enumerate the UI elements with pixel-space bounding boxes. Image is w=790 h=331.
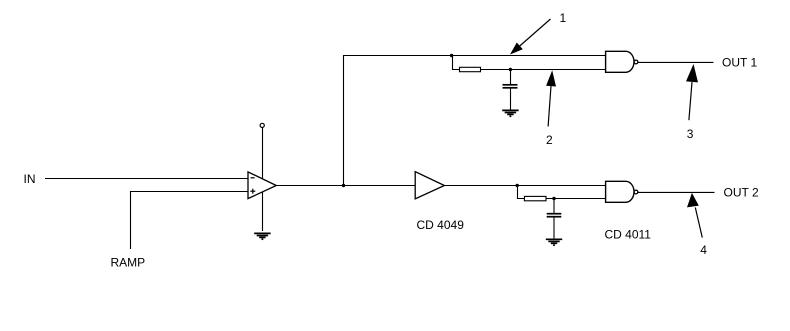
svg-text:4: 4 [700,243,707,257]
power pin circle [260,123,264,127]
callout arrow 3 [689,82,692,120]
junction at C2 [552,197,555,200]
junction node A [342,184,345,187]
wire RAMP input [131,192,249,250]
wire buffer output to NAND2 input A [444,185,605,187]
wire IN input [45,178,248,180]
svg-text:OUT 1: OUT 1 [722,55,757,69]
capacitor C1 [503,70,518,110]
svg-text:CD 4049: CD 4049 [417,218,465,232]
wire branch down to R1 [453,56,460,70]
buffer U3 CD4049 [415,172,444,199]
bubble U2B [634,190,638,194]
callout arrow 2 [548,86,551,127]
wire OUT2 [638,191,715,193]
resistor R1 [460,67,481,71]
resistor R2 [524,196,546,200]
wire OUT1 [638,61,714,63]
minus input mark [251,177,255,179]
wire R1 to NAND1 input B [481,69,606,71]
wire R2 to NAND2 input B [546,198,606,200]
wire comparator power stub [262,128,264,232]
wire top net to NAND1 input A [343,55,606,57]
svg-text:3: 3 [687,127,694,141]
callout arrow 4 [695,208,702,238]
callout arrow 1 [514,19,551,51]
bubble U2A [634,60,638,64]
svg-text:1: 1 [560,11,567,25]
nand gate U2A CD4011 [606,51,634,72]
wire branch down to R2 [518,186,525,199]
junction at resistor branch 2 [516,184,519,187]
ground under C2 [546,239,562,245]
nand gate U2B CD4011 [606,181,634,202]
ground under C1 [502,110,518,116]
op-amp comparator U1 [248,172,276,199]
wire comparator output [276,185,415,187]
ground under comparator [254,233,270,239]
junction at resistor branch [450,54,453,57]
svg-text:CD 4011: CD 4011 [605,227,652,241]
plus input mark [250,189,255,194]
wire feedback riser [343,56,345,186]
svg-text:OUT 2: OUT 2 [724,185,759,199]
svg-text:RAMP: RAMP [111,256,146,270]
svg-text:2: 2 [546,133,553,147]
svg-text:IN: IN [24,172,36,186]
junction at C1 [509,68,512,71]
capacitor C2 [547,199,562,239]
